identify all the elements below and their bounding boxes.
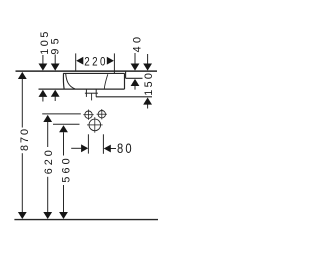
svg-text:40: 40 [132, 34, 144, 53]
svg-text:560: 560 [60, 155, 72, 182]
svg-text:870: 870 [19, 127, 31, 151]
svg-text:95: 95 [49, 34, 61, 54]
svg-text:220: 220 [84, 56, 108, 69]
svg-text:150: 150 [143, 71, 155, 96]
svg-text:620: 620 [43, 147, 55, 174]
svg-text:80: 80 [117, 141, 134, 156]
